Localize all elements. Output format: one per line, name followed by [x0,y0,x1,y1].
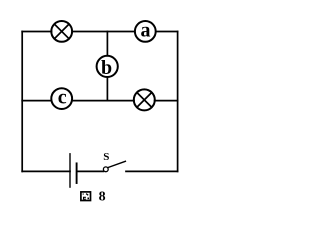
svg-text:S: S [103,151,109,163]
svg-text:b: b [101,57,112,79]
svg-text:c: c [58,87,67,109]
svg-text:8: 8 [99,190,106,205]
svg-text:a: a [141,19,151,41]
